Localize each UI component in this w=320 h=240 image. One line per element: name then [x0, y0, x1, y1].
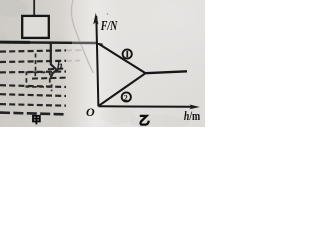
line 1 (descending)	[98, 44, 145, 74]
surface line fade patch	[72, 40, 96, 47]
x axis arrowhead	[190, 105, 200, 110]
svg-text:O: O	[86, 105, 95, 119]
background wash	[0, 0, 205, 127]
svg-text:h/m: h/m	[184, 109, 201, 123]
surface line	[0, 41, 97, 44]
marks near block bottom-right	[51, 84, 53, 91]
water dash row 1	[0, 50, 66, 51]
svg-text:h: h	[57, 60, 63, 71]
dashed string continuation inside block	[34, 73, 36, 78]
F axis arrowhead	[93, 13, 98, 25]
water dash row 6	[0, 104, 66, 106]
svg-text:2: 2	[124, 93, 128, 102]
speck above F/N	[107, 13, 109, 15]
F axis	[96, 16, 98, 106]
surface line stub right of axis	[97, 43, 103, 46]
water dash row 3	[0, 70, 66, 73]
water dash row 3b (middle segment)	[32, 78, 68, 79]
background mottling	[0, 0, 190, 129]
svg-text:F/N: F/N	[100, 19, 118, 34]
plateau line	[146, 71, 188, 73]
dashed string to submerged block	[35, 54, 37, 72]
string above box	[33, 0, 35, 16]
submerged block dashed rectangle	[26, 72, 49, 87]
water dash row 5	[0, 94, 66, 96]
caption jia	[33, 116, 40, 125]
circled 2	[122, 92, 131, 101]
water dash row 3a (short, under h)	[48, 68, 66, 71]
surface line left emphasis	[0, 41, 30, 44]
line 2 (ascending from origin)	[99, 73, 146, 106]
water dash row 4	[0, 85, 66, 87]
hanging box (block)	[22, 16, 49, 38]
caption yi	[140, 116, 149, 125]
depth dimension line with arrow kink	[51, 43, 57, 78]
circled 1	[123, 49, 132, 58]
water dash row 2	[0, 61, 66, 62]
x axis	[98, 105, 192, 108]
water dash row 7	[0, 113, 66, 115]
page curl artifact curve	[71, 0, 93, 73]
